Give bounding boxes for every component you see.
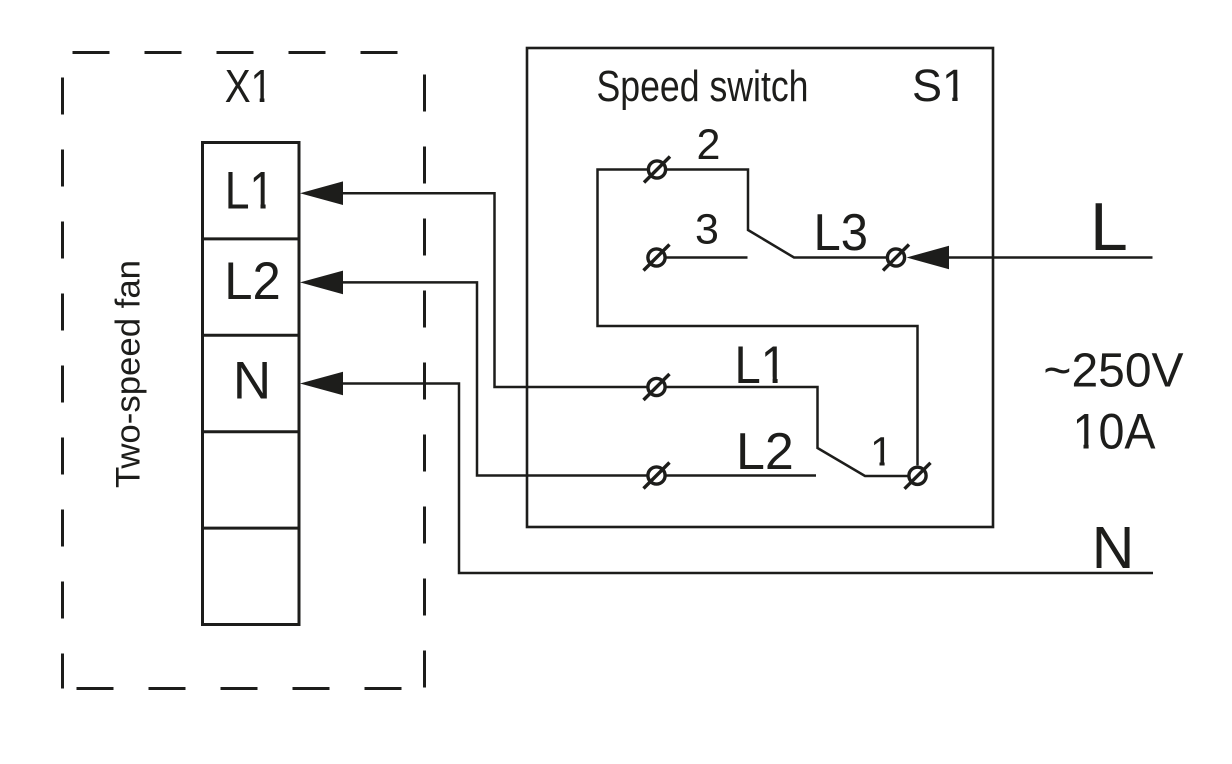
svg-text:L2: L2 <box>224 252 281 311</box>
svg-text:Two-speed fan: Two-speed fan <box>110 260 148 488</box>
svg-text:N: N <box>233 352 271 411</box>
svg-text:2: 2 <box>697 121 721 169</box>
svg-text:3: 3 <box>695 206 719 254</box>
svg-text:L2: L2 <box>736 423 794 481</box>
svg-text:N: N <box>1092 515 1135 581</box>
svg-text:L: L <box>1090 189 1128 265</box>
svg-text:L1: L1 <box>735 336 788 395</box>
svg-text:L3: L3 <box>814 204 869 262</box>
svg-text:Speed switch: Speed switch <box>597 62 809 111</box>
svg-text:~250V: ~250V <box>1043 345 1183 398</box>
svg-text:10A: 10A <box>1073 404 1157 460</box>
